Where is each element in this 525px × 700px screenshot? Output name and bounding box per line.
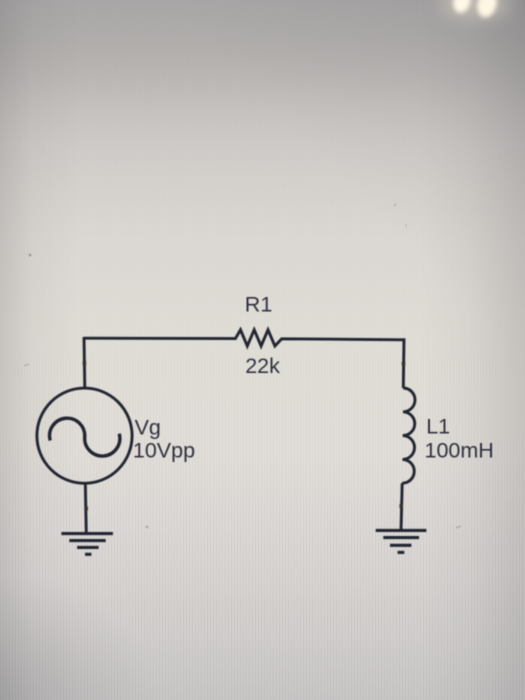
dust speck 3 [456,526,461,528]
svg-text:10Vpp: 10Vpp [133,439,195,463]
wire: source bottom to left ground [85,483,86,534]
circuit schematic group [37,292,494,554]
dust speck 4 [24,364,29,366]
svg-text:22k: 22k [245,354,280,378]
AC voltage source Vg circle [37,388,132,483]
wire: right vertical from top node down to inductor [402,338,406,388]
ground symbol below inductor [376,530,427,552]
dust speck 2 [394,204,396,206]
wire: inductor bottom to right ground [401,483,402,531]
sine symbol inside source [50,418,120,456]
svg-text:R1: R1 [245,292,272,316]
wire: left vertical from top node down to source [83,337,87,389]
pin dot on right vertical wire [402,362,406,366]
flash reflection blob 1 [451,0,473,15]
ground symbol below source [61,534,113,555]
pin dot on right bottom wire [399,504,403,508]
svg-text:100mH: 100mH [425,438,494,462]
svg-text:Vg: Vg [135,416,161,440]
dust speck 5 [146,526,148,528]
dust speck 1 [29,254,32,257]
svg-text:L1: L1 [426,414,450,438]
camera flash reflection halo (top right) [439,0,511,20]
pin dot on left bottom wire [84,507,88,511]
dust speck 2b [405,224,408,227]
wire: top horizontal with resistor R1 zigzag [84,330,404,346]
flash reflection blob 2 [475,0,500,19]
pin dot on left vertical wire [83,361,87,365]
inductor L1 coil (4 arcs) [402,388,415,483]
